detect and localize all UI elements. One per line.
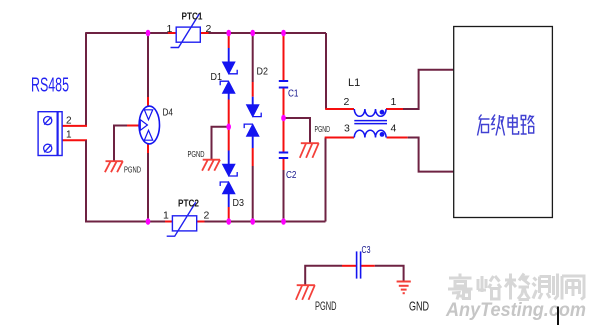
wire pin stub C1 top — [283, 33, 285, 81]
diode D1 TVS bidirectional — [220, 62, 237, 94]
wire pin stub connector pin1 — [62, 139, 87, 141]
capacitor C1 — [279, 81, 288, 88]
wire pin stub D3 bottom — [228, 207, 230, 222]
inductor L1 bottom winding — [354, 130, 386, 137]
inductor L1 core — [354, 121, 387, 124]
node junction bottom bus D4 — [146, 218, 151, 225]
svg-text:PTC2: PTC2 — [178, 199, 199, 210]
node junction top bus D4 — [146, 30, 151, 37]
svg-text:1: 1 — [66, 130, 72, 141]
svg-text:1: 1 — [391, 96, 397, 108]
wire mid junction to PGND2 — [212, 127, 229, 160]
wire pin stub PTC2 pin2 — [197, 221, 205, 223]
wire pin D1 top blue — [228, 48, 230, 62]
text 后级电路 (hand drawn glyphs) — [478, 115, 535, 136]
svg-text:3: 3 — [344, 123, 350, 135]
wire pin stub D2 top — [252, 82, 254, 97]
capacitor C3 — [357, 251, 361, 278]
svg-text:D2: D2 — [257, 67, 269, 78]
wire pin D2 top blue — [252, 97, 254, 105]
label PTC2 pin 2 — [204, 210, 210, 222]
svg-text:2: 2 — [204, 210, 210, 222]
label PTC2 pin 1 — [163, 210, 169, 222]
wire pin stub D2 bottom — [252, 148, 254, 166]
wire pin stub L1 pin2 — [325, 108, 354, 110]
svg-text:4: 4 — [391, 123, 397, 135]
label RS485 — [31, 75, 69, 97]
block 后级电路 box — [454, 27, 553, 218]
wire left vertical lower — [86, 140, 165, 221]
wire pin stub D4 top — [147, 97, 149, 106]
label GND — [409, 300, 429, 314]
label PTC1 pin 2 — [206, 23, 212, 35]
label L1 pin 1 — [391, 96, 397, 108]
svg-text:PTC1: PTC1 — [182, 12, 203, 23]
node junction C1 C2 PGND3 — [281, 115, 286, 122]
node junction top bus D2 — [250, 30, 255, 37]
wire D1 bottom to mid junction — [228, 100, 230, 127]
wire pin stub C2 top — [283, 118, 285, 153]
watermark AnyTesting.com — [445, 299, 586, 321]
label PGND2 — [188, 150, 205, 159]
wire bottom bus corner up to L1 pin3 — [325, 138, 327, 222]
label L1 pin 4 — [391, 123, 397, 135]
wire C2 bottom to bus — [283, 170, 285, 222]
ground PGND1 chassis symbol — [105, 161, 123, 172]
svg-text:C2: C2 — [286, 170, 297, 181]
label C3 — [362, 245, 371, 256]
label PGND1 — [124, 166, 141, 175]
node junction bottom bus D3 — [226, 218, 231, 225]
wire pin stub connector pin2 — [62, 125, 87, 127]
wire top bus corner down to L1 pin2 — [325, 33, 327, 109]
label connector pin number 2 — [66, 116, 72, 127]
svg-text:1: 1 — [167, 23, 173, 35]
node junction bottom bus C2 — [281, 218, 286, 225]
wire pin stub C1 bottom — [283, 88, 285, 119]
connector screw terminal pin 1 — [44, 144, 52, 152]
capacitor C2 — [279, 153, 288, 159]
svg-text:PGND: PGND — [315, 301, 337, 313]
wire pin stub L1 pin1 — [386, 108, 403, 110]
label C2 — [286, 170, 297, 181]
wire L1 pin1 to box — [403, 70, 454, 109]
wire D4 bottom to bus — [147, 153, 149, 222]
wire pin stub C2 bottom — [283, 158, 285, 170]
svg-text:D1: D1 — [211, 72, 223, 83]
ground GND earth symbol — [397, 282, 411, 294]
wire C1C2 junction to PGND3 — [284, 118, 311, 143]
diode D3 TVS bidirectional — [220, 164, 237, 194]
wire pin stub D4 bottom — [147, 144, 149, 153]
svg-text:2: 2 — [66, 116, 72, 127]
label PTC1 pin 1 — [167, 23, 173, 35]
label PGND3 — [315, 125, 331, 134]
wire pin D1 bottom blue — [228, 94, 230, 100]
wire C3 right to GND — [375, 266, 404, 281]
wire left vertical upper — [85, 32, 87, 126]
ground PGND4 chassis symbol — [296, 285, 315, 300]
wire mid junction to D3 — [228, 127, 230, 151]
diode D4 gas discharge tube — [139, 106, 159, 144]
svg-text:PGND: PGND — [315, 125, 331, 134]
label PTC2 — [178, 199, 199, 210]
label L1 — [348, 77, 360, 89]
svg-text:2: 2 — [344, 96, 350, 108]
wire pin stub D4 left — [127, 125, 139, 127]
connector J RS485 body — [38, 112, 62, 156]
svg-text:1: 1 — [163, 210, 169, 222]
wire pin stub PTC1 pin2 — [200, 32, 208, 34]
wire pin stub PTC2 pin1 — [165, 221, 172, 223]
svg-text:L1: L1 — [348, 77, 360, 89]
svg-text:C3: C3 — [362, 245, 371, 256]
node junction top bus C1 — [281, 30, 286, 37]
wire pin D2 bottom blue — [252, 136, 254, 148]
wire top bus right segment — [209, 32, 327, 34]
svg-text:GND: GND — [409, 300, 429, 314]
ground PGND3 chassis symbol — [300, 143, 319, 158]
label D1 — [211, 72, 223, 83]
wire pin stub PTC1 pin1 — [168, 32, 176, 34]
wire pin stub C3 right — [361, 265, 375, 267]
svg-text:PGND: PGND — [124, 166, 141, 175]
wire D2 top from bus — [252, 33, 254, 82]
wire L1 pin4 to box — [408, 138, 454, 172]
svg-text:D3: D3 — [233, 198, 245, 209]
node junction top bus D1 — [226, 30, 231, 37]
svg-text:AnyTesting.com: AnyTesting.com — [445, 299, 586, 321]
node junction D1 D3 PGND2 — [226, 124, 231, 131]
wire pin stub L1 pin3 — [325, 137, 354, 139]
connector screw terminal pin 2 — [44, 117, 52, 125]
label D3 — [233, 198, 245, 209]
label D4 — [163, 108, 174, 119]
wire pin D3 bottom blue — [228, 194, 230, 207]
wire pin stub D1 top — [228, 33, 230, 48]
wire D4 top: bus to ellipse — [147, 33, 149, 97]
svg-text:PGND: PGND — [188, 150, 205, 159]
wire D2 bottom to bus — [252, 166, 254, 222]
label PTC1 — [182, 12, 203, 23]
inductor L1 common mode choke top winding — [354, 109, 386, 116]
wire pin stub L1 pin4 — [387, 137, 408, 139]
svg-text:C1: C1 — [288, 89, 299, 100]
label connector pin number 1 — [66, 130, 72, 141]
resistor PTC1 thermistor body — [171, 14, 201, 48]
wire C3 left to PGND4 — [305, 266, 342, 285]
wire top bus left segment — [86, 32, 168, 34]
svg-text:D4: D4 — [163, 108, 174, 119]
wire pin stub C3 left — [342, 265, 356, 267]
resistor PTC2 thermistor body — [167, 202, 197, 236]
watermark 嘉峪检测网 (hand drawn glyphs) — [448, 274, 584, 300]
diode D2 TVS bidirectional — [244, 105, 261, 137]
wire bottom bus right segment — [205, 221, 326, 223]
ground PGND2 chassis symbol — [202, 160, 220, 171]
label D2 — [257, 67, 269, 78]
cursor bar — [557, 307, 559, 326]
svg-text:2: 2 — [206, 23, 212, 35]
node junction bottom bus D2 — [250, 218, 255, 225]
label L1 pin 2 — [344, 96, 350, 108]
label PGND4 — [315, 301, 337, 313]
wire D4 left to PGND1 — [114, 126, 127, 161]
wire pin D3 top blue — [228, 151, 230, 165]
label L1 pin 3 — [344, 123, 350, 135]
label C1 — [288, 89, 299, 100]
svg-text:RS485: RS485 — [31, 75, 69, 97]
